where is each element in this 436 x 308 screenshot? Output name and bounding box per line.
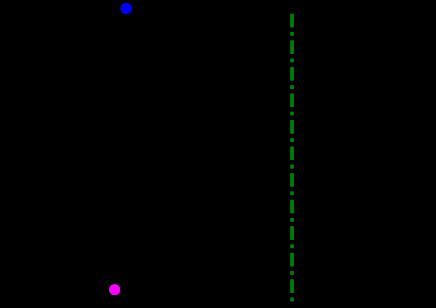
green line dot 7 — [290, 191, 294, 195]
magenta scatter point — [109, 284, 120, 295]
green line dash 3 — [290, 67, 294, 81]
green line dash 9 — [290, 226, 294, 240]
green line dash 7 — [290, 173, 294, 187]
green line dash 5 — [290, 120, 294, 134]
green line dash 4 — [290, 93, 294, 107]
green line dot 6 — [290, 165, 294, 169]
green line dot 5 — [290, 138, 294, 142]
green line dot 3 — [290, 85, 294, 89]
green line dash 1 — [290, 14, 294, 28]
green line dot 2 — [290, 59, 294, 63]
green line dash 2 — [290, 40, 294, 54]
green line dash 8 — [290, 200, 294, 214]
green line dash 11 — [290, 279, 294, 293]
green line dot 8 — [290, 218, 294, 222]
green line dot 1 — [290, 32, 294, 36]
green line dot 10 — [290, 271, 294, 275]
green line dash 6 — [290, 147, 294, 161]
green dash-dot vertical threshold line — [290, 14, 294, 302]
green line dash 10 — [290, 253, 294, 267]
green line dot 9 — [290, 244, 294, 248]
blue scatter point — [120, 3, 131, 14]
green line dot 4 — [290, 112, 294, 116]
green line dot 11 — [290, 298, 294, 302]
